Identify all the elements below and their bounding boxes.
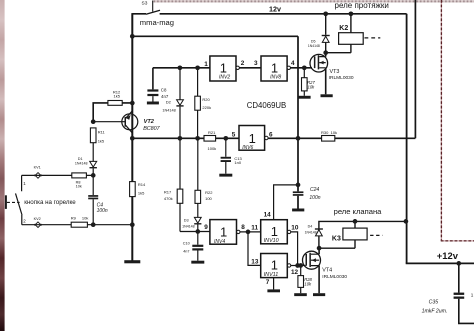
diode D5	[308, 14, 330, 53]
button wire upper	[22, 175, 94, 191]
relay K2	[326, 14, 381, 53]
svg-text:1k5: 1k5	[114, 93, 121, 98]
junction INV4 out	[246, 230, 251, 235]
ground under C8	[147, 102, 159, 105]
junction D1 R8	[91, 173, 96, 178]
svg-text:1: 1	[271, 61, 278, 76]
svg-text:100k: 100k	[208, 146, 217, 151]
svg-text:R20: R20	[202, 97, 210, 102]
junction R9 bus	[130, 222, 135, 227]
svg-text:1: 1	[271, 258, 278, 273]
capacitor C24	[293, 187, 321, 201]
wire pin14 from C24 node	[274, 185, 298, 220]
svg-text:INV10: INV10	[264, 238, 279, 244]
svg-text:K2: K2	[339, 25, 348, 32]
junction INV11 out	[295, 263, 300, 268]
svg-text:12v: 12v	[269, 5, 281, 14]
wire middle row	[132, 137, 415, 139]
svg-text:INV11: INV11	[264, 272, 279, 278]
svg-text:100n: 100n	[309, 195, 320, 201]
diode D2	[162, 68, 183, 139]
svg-text:1mkF 2um.: 1mkF 2um.	[422, 308, 448, 314]
svg-text:INV6: INV6	[242, 145, 253, 151]
resistor R17	[164, 138, 183, 231]
ground under C10	[191, 261, 204, 264]
svg-text:KV2: KV2	[34, 217, 41, 221]
inverter U1E INV10	[261, 220, 291, 244]
svg-text:R14: R14	[138, 182, 146, 187]
ground under C13	[219, 174, 232, 177]
svg-text:10k: 10k	[308, 85, 316, 90]
svg-text:1: 1	[220, 61, 227, 76]
resistor R12	[93, 89, 132, 121]
junction pin9 node	[195, 229, 200, 234]
capacitor C4	[88, 175, 108, 224]
ground under VT4	[313, 293, 325, 296]
svg-text:R11: R11	[98, 130, 106, 135]
svg-text:1k5: 1k5	[98, 139, 105, 144]
svg-text:6: 6	[269, 132, 273, 139]
ground under C24	[292, 209, 304, 212]
svg-text:VT4: VT4	[322, 268, 332, 274]
junction R20 mid	[195, 136, 200, 141]
pushbutton кнопка	[5, 193, 22, 215]
svg-text:+12v: +12v	[437, 250, 459, 261]
svg-text:D5: D5	[311, 40, 316, 44]
svg-text:C10: C10	[183, 242, 190, 246]
svg-text:8: 8	[241, 224, 245, 231]
resistor R9	[71, 216, 89, 228]
resistor R21	[204, 130, 216, 151]
svg-text:5: 5	[232, 132, 236, 139]
svg-text:реле протяжки: реле протяжки	[335, 1, 389, 10]
wire VT4 gate node	[291, 265, 306, 267]
svg-text:C24: C24	[310, 187, 319, 193]
switch S3	[142, 1, 161, 15]
svg-text:VT2: VT2	[144, 119, 155, 125]
svg-text:1: 1	[271, 224, 278, 239]
junction C4 R9	[91, 222, 96, 227]
wire pin7 to ground	[273, 278, 275, 290]
svg-text:14: 14	[264, 211, 272, 218]
svg-text:9: 9	[204, 224, 208, 231]
svg-text:1: 1	[471, 292, 474, 297]
diode D4	[305, 225, 323, 236]
svg-text:VT3: VT3	[330, 69, 340, 75]
svg-text:D2: D2	[166, 100, 172, 105]
junction VT4 drain	[317, 246, 322, 251]
wire реле клапана	[319, 221, 406, 248]
inverter U1D INV4	[210, 220, 240, 245]
wire INV8 to VT3 gate	[290, 67, 312, 69]
svg-text:11: 11	[251, 225, 258, 232]
svg-text:R30: R30	[321, 130, 329, 135]
wire 12v second rail	[132, 35, 298, 37]
svg-text:реле клапана: реле клапана	[334, 207, 383, 216]
wire left bus	[131, 13, 133, 261]
inverter U1C INV6	[239, 126, 268, 152]
wire INV4 out to INV10/INV11 inputs	[240, 232, 261, 266]
svg-text:R17: R17	[164, 190, 172, 195]
junction R28 top	[298, 263, 303, 268]
svg-text:R22: R22	[205, 190, 213, 195]
wire right vertical from 12v rail	[406, 14, 408, 264]
svg-text:INV2: INV2	[219, 75, 230, 81]
svg-text:470k: 470k	[164, 196, 173, 201]
svg-text:C8: C8	[161, 88, 167, 93]
svg-text:10: 10	[291, 224, 299, 231]
svg-text:R21: R21	[208, 130, 216, 135]
diode D1	[75, 157, 97, 175]
svg-text:13: 13	[251, 259, 259, 266]
relay K3	[319, 221, 383, 248]
wire center supply bus	[297, 36, 299, 208]
svg-text:1N4148: 1N4148	[305, 231, 317, 235]
ground under VT3	[321, 94, 333, 97]
ground under pin7	[267, 289, 280, 292]
junction K2 VT3 drain	[323, 50, 328, 55]
resistor R27	[302, 68, 316, 96]
svg-text:CD4069UB: CD4069UB	[247, 101, 286, 110]
wire 12v top rail	[132, 13, 406, 15]
resistor R11	[90, 128, 105, 161]
junction R27 top	[302, 65, 307, 70]
contact KV1	[34, 165, 42, 178]
svg-text:R9: R9	[71, 216, 77, 221]
svg-text:3: 3	[254, 60, 258, 67]
svg-text:KV1: KV1	[34, 165, 41, 169]
svg-text:INV8: INV8	[270, 75, 281, 81]
resistor R22	[195, 138, 213, 217]
svg-text:2: 2	[241, 60, 245, 67]
capacitor C13	[221, 138, 243, 173]
junction 12v D5	[323, 11, 328, 16]
svg-text:mma-mag: mma-mag	[140, 18, 174, 27]
svg-text:4: 4	[291, 60, 295, 67]
resistor R20	[195, 68, 211, 139]
svg-text:D3: D3	[184, 219, 189, 223]
wire INV2-INV8	[239, 67, 261, 69]
svg-text:D4: D4	[308, 225, 313, 229]
svg-text:1N4148: 1N4148	[308, 44, 320, 48]
svg-text:10k: 10k	[76, 184, 82, 188]
svg-text:10k: 10k	[304, 281, 312, 286]
wire +12v rail	[406, 262, 474, 264]
svg-text:1: 1	[204, 61, 208, 68]
svg-text:4n7: 4n7	[161, 94, 169, 99]
capacitor C35	[422, 263, 474, 323]
junction реле клапана rail	[404, 219, 409, 224]
svg-text:4n7: 4n7	[183, 250, 189, 254]
resistor R14	[130, 182, 146, 197]
svg-text:S3: S3	[142, 1, 148, 7]
inverter U1F INV11	[261, 254, 291, 278]
diode D3	[182, 217, 201, 231]
resistor R30	[321, 130, 337, 141]
capacitor C8	[147, 88, 168, 102]
svg-text:кнопка на горелке: кнопка на горелке	[24, 199, 76, 206]
svg-text:7: 7	[266, 279, 270, 286]
wire INV4 input	[180, 231, 210, 233]
capacitor C10	[183, 232, 204, 261]
junction INV2 in	[178, 65, 183, 70]
resistor R28	[298, 266, 313, 294]
svg-text:1k5: 1k5	[138, 190, 145, 195]
inverter U1A INV2	[210, 56, 240, 81]
junction 12v K2	[349, 11, 354, 16]
junction collector mid	[130, 136, 135, 141]
wire top entry vertical	[414, 0, 416, 138]
svg-text:1N4148: 1N4148	[162, 109, 175, 113]
svg-text:10k: 10k	[331, 130, 337, 135]
junction C13 mid	[223, 136, 228, 141]
svg-text:100: 100	[205, 196, 212, 201]
transistor VT3	[310, 53, 328, 95]
svg-text:C35: C35	[429, 300, 439, 306]
junction +12v C35	[456, 261, 461, 266]
svg-text:INV4: INV4	[214, 239, 225, 245]
inverter U1B INV8	[261, 56, 290, 81]
svg-text:1: 1	[220, 224, 227, 239]
wire INV2 input	[153, 68, 210, 90]
resistor R8	[72, 173, 87, 188]
svg-text:1N4148: 1N4148	[75, 161, 88, 165]
ground under R27	[298, 96, 310, 99]
transistor VT2	[93, 111, 138, 134]
svg-text:IRLML0030: IRLML0030	[322, 274, 347, 280]
junction base R11	[91, 119, 96, 124]
wire INV10 out down	[291, 232, 298, 266]
contact KV2	[34, 217, 42, 228]
ground under R28	[294, 293, 307, 296]
svg-text:100n: 100n	[97, 208, 108, 214]
junction D2 mid	[178, 136, 183, 141]
svg-text:1n0: 1n0	[234, 160, 241, 165]
junction C24 pin14	[296, 183, 301, 188]
svg-text:IRLML0030: IRLML0030	[329, 75, 354, 81]
junction bus mid	[296, 136, 301, 141]
ground left bus	[124, 260, 140, 263]
junction R12 emitter	[130, 101, 135, 106]
svg-text:10k: 10k	[82, 216, 88, 221]
svg-text:1: 1	[249, 131, 256, 146]
transistor VT4	[303, 248, 321, 293]
button wire lower	[22, 215, 133, 225]
svg-text:220k: 220k	[202, 105, 211, 110]
junction left bus rail2	[130, 34, 135, 39]
junction R20 top	[195, 65, 200, 70]
svg-text:BC807: BC807	[143, 126, 160, 132]
junction реле клапана K3	[353, 219, 358, 224]
svg-text:K3: K3	[332, 235, 341, 242]
svg-text:1N4148: 1N4148	[182, 225, 195, 229]
